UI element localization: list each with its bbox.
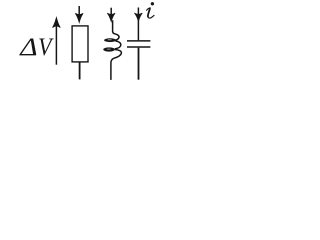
svg-text:V: V <box>38 34 54 62</box>
capacitor bottom plate <box>127 46 150 48</box>
arrow down into inductor <box>107 8 115 22</box>
svg-text:Δ: Δ <box>19 33 37 60</box>
capacitor bottom lead <box>138 48 140 80</box>
arrow down + capacitor top lead <box>135 8 143 41</box>
arrow up (ΔV direction) <box>53 18 61 65</box>
label ΔV <box>19 33 54 61</box>
label i (current) <box>147 2 154 18</box>
arrow down into resistor <box>75 6 83 22</box>
resistor body <box>72 26 88 62</box>
capacitor top plate <box>127 40 150 42</box>
inductor coil <box>103 20 121 80</box>
resistor bottom lead <box>79 62 81 80</box>
